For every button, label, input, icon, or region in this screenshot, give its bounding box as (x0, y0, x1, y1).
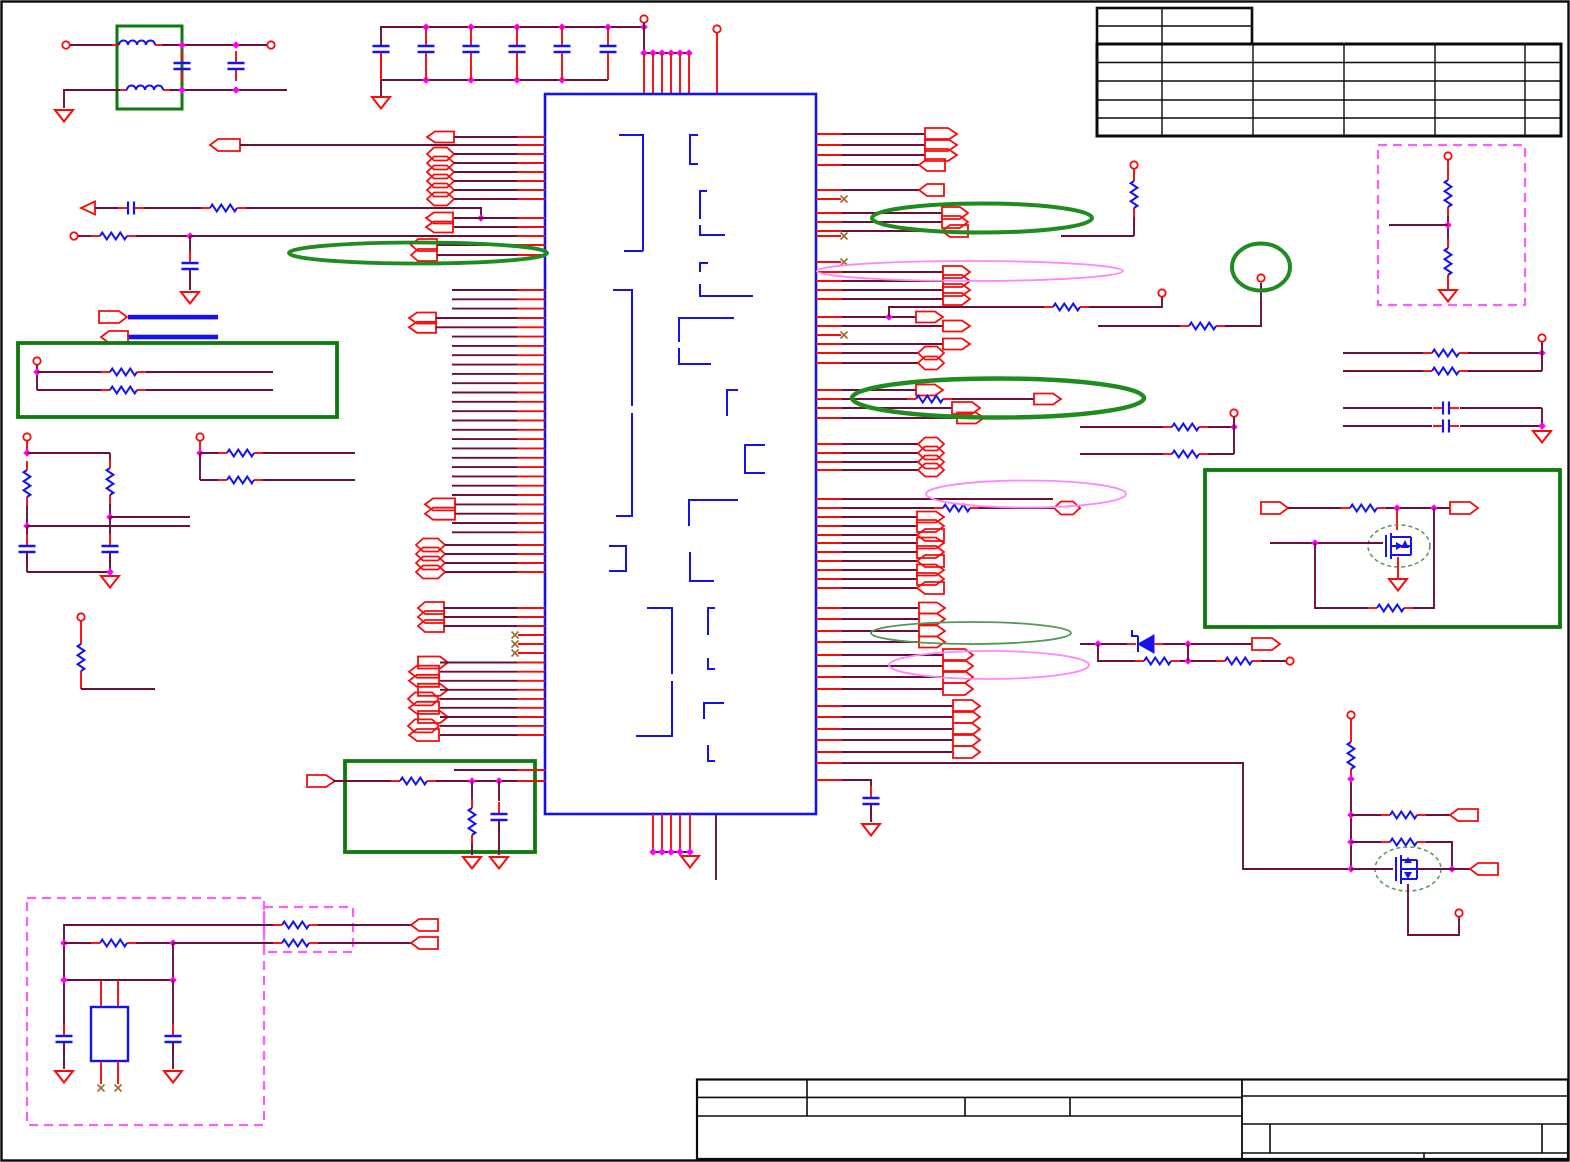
wire (452, 438, 517, 440)
wire (436, 317, 517, 319)
U1 inner bracket m (704, 608, 724, 761)
resistor R13 (1216, 658, 1261, 665)
ground (55, 110, 73, 122)
no-connect (512, 650, 519, 657)
pin (518, 652, 545, 654)
wire (452, 531, 517, 533)
wire (1343, 352, 1423, 354)
common-mode filter box FB1 (117, 26, 182, 109)
capacitor C11 (182, 251, 199, 281)
wire (26, 553, 28, 572)
wire (64, 942, 91, 944)
junction (1347, 838, 1355, 846)
connector J16 (425, 508, 455, 520)
connector J75 (943, 671, 973, 683)
wire (816, 551, 842, 553)
capacitor C2 (228, 51, 245, 81)
wire (1208, 426, 1234, 428)
wire (715, 814, 717, 880)
wire (452, 494, 517, 496)
wire (816, 716, 842, 718)
highlight ellipse (926, 481, 1126, 508)
junction (1184, 657, 1192, 665)
wire (979, 507, 1054, 509)
ground (164, 1071, 182, 1083)
wire (200, 452, 218, 454)
capacitor C1 (174, 51, 191, 81)
wire (37, 371, 101, 373)
connector J21 (418, 602, 444, 614)
resistor R1 (201, 205, 246, 212)
wire (437, 244, 517, 246)
connector J11 (411, 239, 437, 251)
capacitor C17 (19, 534, 36, 564)
connector J59 (1054, 502, 1080, 515)
connector J90 (101, 331, 128, 343)
wire (70, 44, 112, 46)
wire (1468, 370, 1542, 372)
connector J65 (917, 555, 944, 567)
wire (318, 924, 411, 926)
wire (481, 217, 517, 219)
wire (816, 212, 842, 214)
wire (1351, 841, 1381, 843)
wire (170, 89, 287, 91)
resistor R6 (1044, 304, 1089, 311)
capacitor C10 (118, 202, 144, 215)
wire (436, 326, 517, 328)
junction (477, 214, 485, 222)
terminal (1158, 289, 1165, 296)
IC U1 (545, 94, 816, 814)
terminal (33, 357, 40, 364)
wire (816, 630, 842, 632)
terminal (1444, 152, 1451, 159)
terminal (23, 433, 30, 440)
wire (452, 392, 517, 394)
ground (1439, 290, 1457, 302)
connector J87 (411, 919, 438, 931)
wire (1408, 884, 1459, 935)
wire (333, 780, 391, 782)
connector J34 (925, 128, 957, 140)
connector J74 (943, 660, 973, 672)
wire (1133, 217, 1135, 236)
connector J50 (918, 357, 944, 370)
terminal (1538, 334, 1545, 341)
wire (1351, 814, 1381, 816)
wire (498, 821, 500, 855)
junction (169, 976, 177, 984)
resistor R27 (101, 387, 146, 394)
wire (172, 1043, 174, 1069)
connector J7 (427, 184, 454, 197)
crystal Y1 (91, 1007, 128, 1061)
wire (27, 571, 110, 573)
terminal (267, 41, 274, 48)
connector J20 (416, 566, 445, 579)
wire (26, 441, 28, 453)
wire (109, 553, 111, 572)
VDD rail wire (381, 27, 644, 45)
connector J81 (953, 734, 980, 746)
wire (454, 162, 517, 164)
pin (679, 814, 681, 852)
wire (454, 189, 517, 191)
connector J61 (917, 520, 944, 532)
resistor R18 (1341, 505, 1386, 512)
wire (36, 365, 38, 390)
wire (454, 198, 517, 200)
wire (816, 607, 842, 609)
junction (169, 939, 177, 947)
connector J3 (427, 148, 454, 161)
wire (436, 780, 517, 782)
connector J15 (425, 498, 455, 510)
connector J17 (416, 539, 445, 552)
connector J64 (917, 546, 944, 558)
wire (381, 79, 608, 81)
no-connect (841, 259, 848, 266)
wire (1288, 507, 1341, 509)
connector J4 (427, 157, 454, 170)
wire (1386, 507, 1450, 509)
wire (952, 398, 1034, 400)
wire (1541, 408, 1543, 426)
resistor R30 (218, 450, 263, 457)
resistor R24 (91, 940, 136, 947)
connector J31 (408, 719, 439, 732)
U1 inner bracket e (679, 318, 734, 364)
wire (1413, 508, 1434, 608)
title block (697, 1080, 1568, 1160)
pin (670, 53, 672, 94)
junction (60, 939, 68, 947)
wire (816, 507, 842, 509)
wire (816, 154, 842, 156)
wire (816, 289, 842, 291)
wire (199, 453, 201, 480)
wire (444, 616, 517, 618)
junction (1538, 422, 1546, 430)
wire (440, 734, 517, 736)
wire (1460, 425, 1542, 427)
wire (1343, 425, 1432, 427)
wire (1225, 283, 1261, 326)
no-connect (115, 1085, 122, 1092)
wire (816, 461, 842, 463)
wire (816, 352, 842, 354)
junction (106, 513, 114, 521)
wire (452, 345, 517, 347)
resistor R25 (273, 940, 318, 947)
wire (452, 420, 517, 422)
wire (816, 271, 842, 273)
pin (661, 53, 663, 94)
connector J46 (916, 312, 943, 323)
pin (100, 980, 102, 1006)
wire (1343, 370, 1423, 372)
connector J22 (418, 611, 444, 623)
wire (816, 417, 842, 419)
pin (652, 53, 654, 94)
wire (109, 517, 111, 534)
connector J60 (917, 512, 944, 523)
wire (816, 133, 842, 135)
connector J5 (427, 166, 454, 179)
connector J43 (943, 275, 970, 287)
connector J23 (418, 620, 444, 632)
junction (23, 522, 31, 530)
wire (445, 562, 517, 564)
ground (181, 292, 199, 304)
wire (816, 398, 842, 400)
resistor R8 (907, 396, 952, 403)
highlight ellipse (871, 622, 1071, 644)
VDD pin rail (644, 52, 689, 54)
crystal dashed box (27, 898, 264, 1125)
wire (471, 781, 473, 799)
wire (445, 544, 517, 546)
wire (1061, 235, 1134, 237)
connector J57 (918, 456, 944, 469)
junction (676, 49, 684, 57)
junction (604, 23, 612, 31)
wire (81, 688, 155, 690)
highlight ellipse (852, 379, 1144, 418)
ground (1389, 579, 1407, 591)
wire (64, 979, 173, 981)
terminal (713, 25, 720, 32)
terminal (62, 41, 69, 48)
connector J72 (919, 637, 945, 648)
wire (144, 207, 201, 209)
wire (452, 373, 517, 375)
wire (454, 153, 517, 155)
no-connect (841, 332, 848, 339)
wire (37, 389, 101, 391)
junction (1448, 865, 1456, 873)
connector J53 (952, 402, 980, 414)
resistor R17 (1423, 368, 1468, 375)
connector J71 (919, 626, 945, 637)
wire (1350, 719, 1352, 733)
pin (518, 643, 545, 645)
junction (1311, 539, 1319, 547)
capacitor C13 (1433, 402, 1459, 415)
wire (440, 698, 517, 700)
wire (1447, 216, 1449, 239)
junction (649, 848, 657, 856)
connector J73 (943, 649, 973, 661)
gnd rail (653, 851, 690, 853)
capacitor C18 (102, 534, 119, 564)
wire (1270, 542, 1383, 544)
U1 inner bracket f (613, 290, 632, 516)
capacitor C8 (600, 27, 617, 80)
pin (652, 814, 654, 852)
wire (816, 739, 842, 741)
wire (437, 254, 517, 256)
wire (471, 844, 473, 855)
wire (246, 208, 481, 218)
connector J58 (918, 464, 944, 477)
connector J54 (957, 413, 984, 424)
connector J10 (426, 222, 453, 233)
pin (670, 814, 672, 852)
junction (178, 41, 186, 49)
U1 inner bracket k (690, 552, 714, 581)
resistor R4 (469, 799, 476, 844)
wire (816, 516, 842, 518)
ground (463, 857, 481, 869)
junction (178, 86, 186, 94)
terminal (1257, 274, 1264, 281)
wire (440, 662, 517, 664)
no-connect (512, 632, 519, 639)
wire (816, 751, 842, 753)
wire (816, 654, 842, 656)
resistor R32 (78, 635, 85, 680)
connector J40 (942, 216, 968, 228)
connector J88 (411, 937, 438, 949)
connector J2 (210, 139, 240, 151)
wire (816, 676, 842, 678)
connector J47 (943, 321, 970, 332)
wire (27, 452, 110, 454)
connector J67 (917, 573, 944, 585)
wire (454, 171, 517, 173)
wire (80, 621, 82, 635)
connector J86 (1470, 863, 1498, 875)
wire (444, 625, 517, 627)
connector J18 (416, 548, 445, 561)
terminal (196, 433, 203, 440)
connector J1 (427, 132, 454, 143)
wire (816, 221, 842, 223)
wire (816, 443, 842, 445)
no-connect (841, 196, 848, 203)
wire (1447, 284, 1449, 289)
wire (1261, 660, 1286, 662)
connector J69 (919, 603, 945, 614)
junction (495, 777, 503, 785)
wire (1208, 453, 1234, 455)
wire (173, 942, 273, 944)
pin (816, 261, 841, 263)
capacitor C5 (463, 27, 480, 80)
capacitor C6 (509, 27, 526, 80)
wire (452, 447, 517, 449)
wire (816, 569, 842, 571)
pin (689, 814, 691, 852)
junction (1347, 811, 1355, 819)
wire (454, 769, 517, 771)
wire (816, 230, 842, 232)
wire (78, 235, 91, 237)
U1 inner bracket h (745, 445, 765, 473)
wire (452, 382, 517, 384)
connector J79 (953, 711, 980, 723)
resistor R10 (1163, 451, 1208, 458)
U1 inner bracket c (700, 191, 725, 235)
connector J44 (943, 284, 970, 296)
terminal (640, 15, 647, 22)
wire (1343, 407, 1432, 409)
junction (667, 848, 675, 856)
wire (816, 452, 842, 454)
wire (1389, 224, 1448, 226)
resistor R19 (1368, 605, 1413, 612)
connector J49 (918, 347, 944, 360)
wire (199, 441, 201, 453)
wire (440, 716, 517, 718)
junction (232, 41, 240, 49)
terminal (70, 232, 77, 239)
wire (643, 23, 645, 53)
wire (454, 217, 481, 219)
diode D1 (1127, 630, 1163, 653)
pin (661, 814, 663, 852)
junction (685, 49, 693, 57)
junction (658, 49, 666, 57)
wire (816, 542, 842, 544)
wire (816, 618, 842, 620)
wire (1447, 160, 1449, 171)
pin (643, 53, 645, 94)
junction (422, 76, 430, 84)
resistor R22 (1381, 839, 1426, 846)
wire (452, 289, 517, 291)
connector J33 (307, 775, 335, 787)
wire (452, 410, 517, 412)
wire (454, 180, 517, 182)
no-connect (841, 233, 848, 240)
wire (1468, 352, 1542, 354)
inductor L1 (112, 41, 162, 46)
wire (63, 1043, 65, 1069)
wire (318, 942, 411, 944)
ground (490, 857, 508, 869)
wire (80, 680, 82, 689)
capacitor C12 (491, 802, 508, 832)
pin (679, 53, 681, 94)
wire (870, 805, 872, 822)
wire (816, 362, 842, 364)
connector J38 (919, 184, 944, 196)
resistor R23 (273, 922, 318, 929)
wire (109, 504, 111, 517)
wire (27, 525, 190, 527)
terminal (1286, 657, 1293, 664)
wire (1187, 644, 1189, 661)
junction (676, 848, 684, 856)
connector J62 (917, 529, 944, 541)
wire (64, 90, 120, 108)
terminal (1347, 711, 1354, 718)
connector J55 (918, 438, 944, 451)
wire (146, 371, 273, 373)
wire (263, 479, 355, 481)
connector J39 (942, 207, 968, 219)
connector J30 (418, 711, 448, 723)
wire (200, 479, 218, 481)
connector J14 (409, 322, 436, 333)
wire (445, 571, 517, 573)
junction (467, 76, 475, 84)
resistor R14 (1445, 171, 1452, 216)
dashed highlight box (1378, 145, 1525, 305)
